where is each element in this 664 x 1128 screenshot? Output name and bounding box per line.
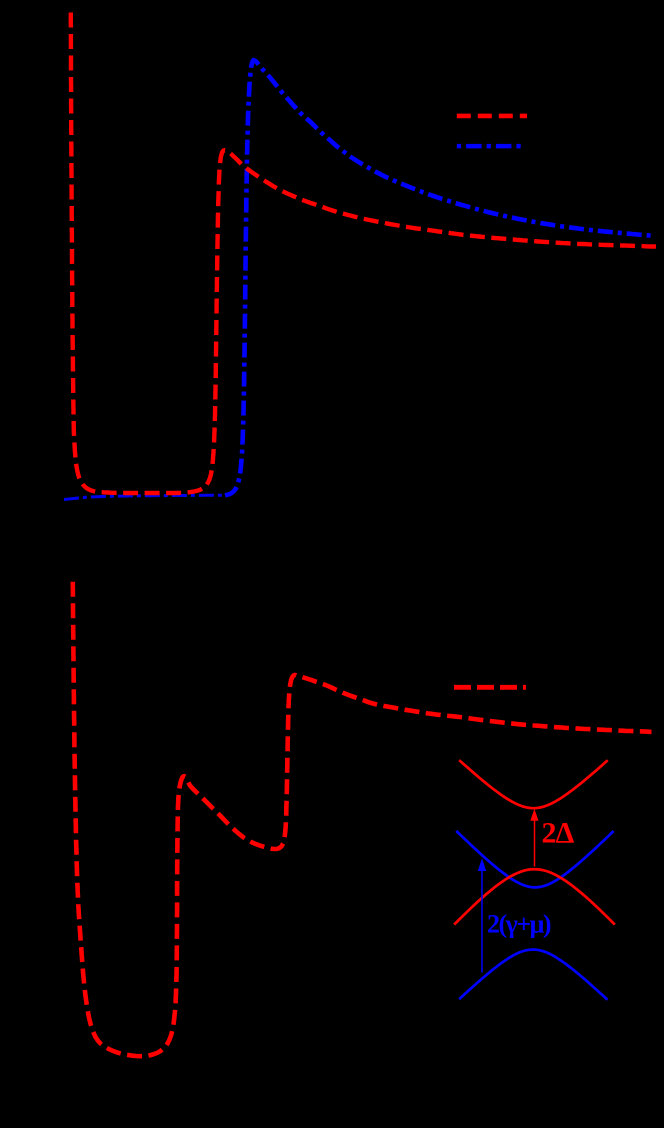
inset: blue vertical transition arrow (481, 869, 483, 973)
top panel: red dashed curve (gamma = 0) (71, 13, 656, 494)
top legend: red dashed sample line (457, 114, 527, 119)
bottom legend: red dashed sample line (454, 685, 526, 690)
inset: red upper band (conduction band) (459, 760, 608, 808)
svg-text:2(γ+μ): 2(γ+μ) (487, 910, 551, 939)
top panel: blue dash-dot curve (gamma = 10 meV) (225, 60, 652, 495)
bottom panel: red dashed curve (73, 582, 652, 1056)
inset: blue lower band (459, 950, 607, 1000)
inset: red lower band (dome) (454, 869, 615, 924)
inset: red vertical transition arrow (534, 819, 536, 867)
inset: blue upper band (valence-like crossing band) (456, 831, 614, 888)
svg-text:2Δ: 2Δ (542, 817, 575, 850)
top panel: blue dash-dot curve flat tail near zero (64, 495, 226, 499)
top legend: blue dash-dot sample line (457, 144, 524, 149)
